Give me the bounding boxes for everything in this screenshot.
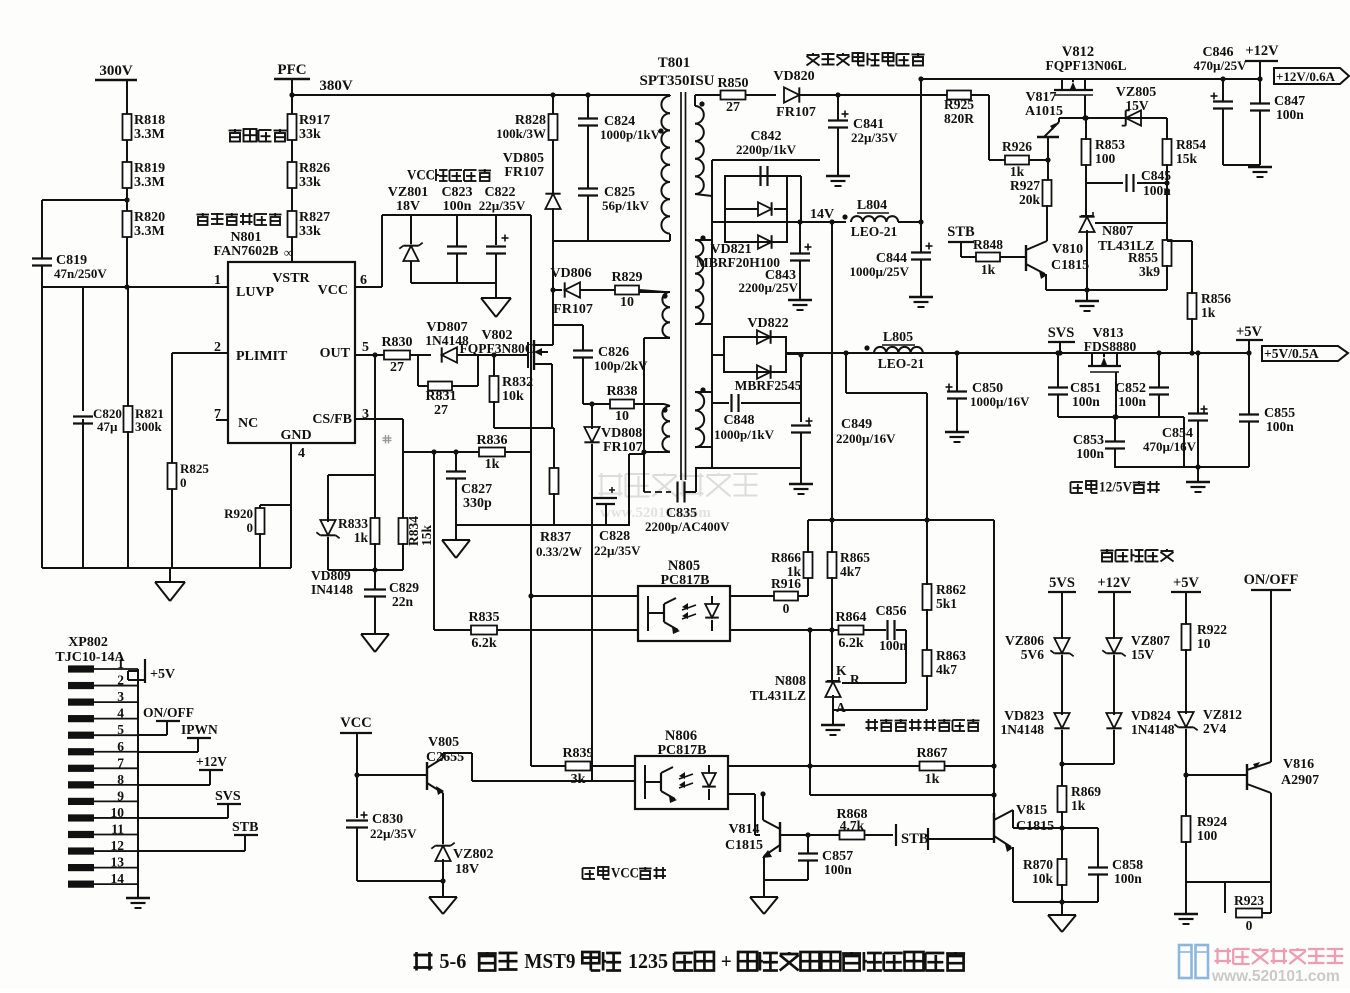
wire PFC down [289,79,294,115]
ic N801 box [228,262,355,443]
wire V812 source [1082,95,1087,121]
wire R924 top [1183,772,1188,817]
label 380V [319,78,353,94]
N801 pin text VSTR [272,271,310,286]
wire 14V up [920,79,922,222]
svg-text:C1815: C1815 [1016,819,1054,834]
svg-text:22µ/35V: 22µ/35V [851,130,898,145]
connector XP802 pins [68,665,138,887]
wire S2 top [695,239,712,241]
svg-text:N808: N808 [775,674,806,689]
wire C858 down [1097,875,1099,902]
connector XP802 numbers [111,656,125,886]
connector XP802 bus [137,669,139,884]
wire R839 line [531,765,565,767]
svg-text:N801: N801 [230,230,261,245]
wire C849 stub [798,352,803,422]
svg-text:N807: N807 [1102,224,1133,239]
diode VD822 b [757,365,771,379]
svg-text:R870: R870 [1023,857,1053,872]
wire vz812 to base [1186,774,1247,776]
resistor R850 [717,76,748,115]
wire C855 down [1248,422,1250,467]
label ovp [1101,549,1174,562]
svg-text:33k: 33k [299,224,321,239]
wire R862-R863 [926,609,928,651]
svg-text:LEO-21: LEO-21 [878,356,925,371]
svg-text:4k7: 4k7 [840,564,861,579]
svg-text:C856: C856 [875,604,906,619]
label vcc-supply [407,167,491,183]
N801 pin4 number [298,446,305,461]
wire C850 gnd [945,399,969,442]
svg-text:1k: 1k [485,457,500,472]
wire sec line160 [712,159,820,161]
VCC rail top [382,214,531,216]
resistor R927 [1010,178,1052,207]
wire N805 in bottom [434,629,638,631]
capacitor C854 [1143,350,1208,454]
svg-text:6: 6 [360,273,367,288]
wire R850-VD820 [746,94,776,96]
inductor L804 [842,198,898,239]
svg-text:15V: 15V [1125,98,1149,113]
tl431 N808 [825,677,840,697]
wire 12vb down [1113,592,1115,639]
wire VZ802 down [442,859,444,881]
opto N805 box [638,586,730,641]
svg-text:R829: R829 [611,270,642,285]
label standby-12-5V [1071,479,1160,495]
secondary S2 [695,235,706,324]
label VZ801 [388,185,428,214]
wire C823 top [456,215,458,246]
capacitor C846 [1211,76,1234,108]
svg-text:R855: R855 [1128,250,1158,265]
resistor R868 [787,807,868,840]
svg-text:0: 0 [247,520,254,535]
svg-text:PFC: PFC [277,62,306,78]
wire R826-R827 [291,188,293,211]
svg-text:VCC: VCC [611,865,639,881]
label qidong-circuit [229,129,287,142]
flag +12V/0.6A [1274,68,1349,84]
svg-text:R865: R865 [840,550,870,565]
svg-text:2200µ/25V: 2200µ/25V [739,280,799,295]
capacitor C845 [1086,168,1171,198]
svg-text:MST9: MST9 [524,949,575,973]
N801 pin5 wire [355,352,385,357]
capacitor C830 [346,812,417,842]
wire C841 gnd [826,128,850,186]
wire C843 gnd [788,261,812,310]
12V rail [918,76,1262,81]
wire left down [41,287,43,568]
terminal STB4 [896,824,929,847]
terminal +5Vb [1171,575,1201,592]
transistor V812 mosfet [1054,79,1093,95]
svg-text:18V: 18V [455,862,479,877]
opto N805 arrows [682,603,696,619]
svg-text:22µ/35V: 22µ/35V [479,198,526,213]
svg-text:+12V: +12V [1097,575,1131,591]
svg-text:15V: 15V [1131,647,1155,662]
svg-text:R925: R925 [944,97,974,112]
tl431 N807 [1079,212,1094,232]
wire W3 top [664,404,670,406]
svg-text:14V: 14V [810,207,834,222]
resistor R839 [562,746,593,787]
svg-text:1k: 1k [787,564,802,579]
N801 pin text GND [280,428,311,443]
wire V815 collector [1013,810,1062,828]
svg-text:12/5V: 12/5V [1099,479,1132,495]
wire primary-gnd to N806 [591,525,593,781]
zener VZ801 [399,243,422,261]
wire S1 top [695,95,721,106]
capacitor C849 [791,417,896,446]
wire R829-W2 [639,290,665,292]
resistor R826 [288,161,331,190]
svg-text:A: A [836,700,846,715]
resistor R832 [490,375,534,404]
wire P1 top [669,95,671,96]
capacitor C847 [1250,79,1305,122]
svg-text:15k: 15k [419,525,434,547]
wire C851 down [1057,395,1059,417]
wire 300V down [126,80,128,115]
label VZ805 15V [1125,98,1149,113]
wire fb to base [993,520,995,766]
svg-text:2: 2 [117,673,124,688]
wire vz807-vd824 [1113,655,1115,715]
capacitor C824 [578,114,661,142]
label A [836,700,846,715]
svg-text:12: 12 [111,838,125,853]
wire R837 bottom [553,493,555,525]
svg-text:3.3M: 3.3M [134,224,165,239]
wire W2 top [638,291,670,293]
resistor R834 [399,516,435,546]
label T801 [658,55,691,71]
svg-text:4: 4 [298,446,305,461]
svg-text:CS/FB: CS/FB [312,412,352,427]
svg-text:FR107: FR107 [603,440,643,455]
ground N808 [821,710,845,735]
svg-text:N806: N806 [665,728,697,744]
capacitor C856 [875,604,907,653]
label N808 [750,674,806,703]
svg-text:27: 27 [434,403,448,418]
svg-text:0.33/2W: 0.33/2W [536,544,582,559]
wire V817 emitter join [1059,117,1085,119]
wire C823 bottom [456,254,458,283]
resistor R917 [288,113,331,142]
N801 pin2 wire [172,352,228,354]
svg-text:R920: R920 [224,506,253,521]
VD809 bottom [328,537,403,570]
terminal ON/OFF xp [138,705,194,735]
wire R828-VD805 [552,140,554,193]
wire R848 right [1000,256,1026,258]
opto N806 diode [702,765,716,800]
label V802 [481,328,512,343]
svg-text:14: 14 [111,871,125,886]
svg-text:C829: C829 [389,580,419,595]
N801 pin5 number [362,340,369,355]
svg-text:1k: 1k [981,262,996,277]
resistor R863 [923,648,967,677]
N801 pin3 wire [355,419,403,452]
resistor R867 [916,746,947,787]
label VZ802 [453,847,493,877]
opto N806 box [635,756,728,809]
wire R925 right [971,95,989,160]
svg-text:6: 6 [117,739,124,754]
wire C849 gnd [789,433,813,494]
wire C829 gnd [361,597,389,652]
wire W2 bottom [644,337,670,339]
svg-text:VCC: VCC [340,715,371,731]
wire box out [786,353,801,355]
svg-text:22n: 22n [392,594,414,609]
resistor R925 [944,91,974,127]
wire N806 out bottom [728,794,760,835]
N801 pin3 number [362,407,369,422]
terminal STB xp [138,820,258,851]
wire C848 right [741,402,801,404]
capacitor C835 [645,482,730,535]
resistor R855 [1128,240,1172,279]
wire y795 [810,766,997,798]
secondary S1 [695,101,705,194]
label V805 [426,735,464,765]
svg-text:15k: 15k [1176,151,1198,166]
resistor R827 [288,210,331,239]
resistor R836 [476,433,507,472]
svg-text:R: R [850,672,860,687]
label VD807 [425,320,469,348]
wire R821 bottom [127,431,129,568]
label SVS [1048,325,1075,342]
diode VD822 a [757,330,771,344]
svg-text:4.7k: 4.7k [840,818,865,833]
wire VZ801 top [410,215,412,244]
mid ground rail [456,524,630,526]
svg-text:C827: C827 [461,482,492,497]
wire C822 bottom [495,254,497,298]
svg-text:+12V: +12V [196,754,227,769]
wire R838 right [634,403,664,405]
svg-text:100n: 100n [1076,446,1104,461]
label C822 [479,185,526,213]
wire R839 right [591,765,635,767]
resistor R862 [923,520,967,611]
svg-text:5: 5 [362,340,369,355]
label FDS8880 [1084,339,1137,354]
ground V814 [750,880,778,914]
svg-text:XP802: XP802 [68,635,108,650]
svg-text:OUT: OUT [320,346,351,361]
svg-text:100n: 100n [1266,419,1294,434]
svg-text:R927: R927 [1010,178,1040,193]
wire STB to base [928,838,994,840]
svg-text:2V4: 2V4 [1203,721,1226,736]
aux winding W2 [662,292,670,338]
opto N805 led [648,596,680,634]
svg-text:R922: R922 [1197,622,1227,637]
wire N807 R pin [1095,222,1167,224]
wire 14V line [712,207,846,225]
wire C826 bottom [582,358,584,404]
wire R867 right [945,763,997,768]
svg-text:VZ802: VZ802 [453,847,493,862]
resistor R856 [1167,241,1231,320]
transistor V810 [1026,241,1047,279]
wire R818-R819 [126,140,128,163]
wire W2W3 vertical [629,338,644,492]
wire VD805 bottom [552,208,554,241]
label SPT350ISU [639,73,714,89]
R836 line [403,449,531,454]
svg-text:100n: 100n [443,199,472,214]
svg-text:R924: R924 [1197,814,1227,829]
wire C835 line [644,491,671,493]
capacitor C826 [573,345,648,373]
wire R855 down [1166,265,1168,290]
wire r922-vz812 [1185,649,1187,714]
wire vd823 down [1059,730,1064,787]
wire K stub [831,630,833,680]
N801 pin6 wire [355,215,382,287]
capacitor C858 [1088,828,1143,886]
wire C852 down [1158,395,1160,417]
line c851c852 [1058,417,1184,467]
label VD821 [710,242,751,257]
wire R832 top [491,352,496,377]
terminal +12V [1245,43,1279,82]
svg-text:R838: R838 [606,384,637,399]
svg-text:27: 27 [726,100,740,115]
wire V815 emitter [1012,847,1014,902]
resistor R825 [168,461,210,490]
wire R833 bottom [372,543,377,573]
svg-text:1N4148: 1N4148 [1001,722,1045,737]
svg-text:R831: R831 [425,389,456,404]
wire R865 down [829,577,834,633]
wire R825 top [171,353,173,464]
wire SVS stub [1057,342,1062,356]
svg-text:4: 4 [117,706,124,721]
opto N805 diode [705,596,719,631]
N801 pin1 number [214,273,221,288]
wire C857 down [807,861,809,880]
svg-text:0: 0 [1246,918,1253,933]
wire VD808 top [589,401,594,429]
resistor R854 [1163,118,1207,166]
ground XP802 [126,884,150,908]
label C842 [736,129,797,157]
svg-text:3: 3 [117,689,124,704]
wire snubber bottom [553,240,670,242]
wire VD808-C828 [591,444,593,525]
svg-text:27: 27 [390,360,404,375]
wire VD807-gate [457,354,528,356]
wire V810 collector [1046,205,1048,241]
svg-text:VZ801: VZ801 [388,185,428,200]
svg-text:FR107: FR107 [504,165,544,180]
svg-text:R837: R837 [540,530,571,545]
svg-text:1000p/1kV: 1000p/1kV [600,127,661,142]
ground R924 [1174,882,1198,924]
svg-text:2200p/1kV: 2200p/1kV [736,142,797,157]
diode VD823 [1001,708,1070,737]
transistor V817 [1037,118,1059,158]
wire V814 base [780,834,787,836]
wire S2 bottom [695,323,712,325]
wire R833 top [374,355,376,519]
resistor R922 [1182,622,1228,651]
svg-text:VD806: VD806 [550,266,591,281]
diode VD805 [545,194,560,209]
resistor R864 [835,610,866,651]
zener VZ812 [1174,707,1242,736]
transformer core [681,92,686,480]
svg-text:47n/250V: 47n/250V [54,266,107,281]
transistor V814 [760,791,780,858]
svg-text:FQPF13N06L: FQPF13N06L [1046,58,1127,73]
terminal +12Vb [1097,575,1131,592]
wire V814 emitter [764,856,808,880]
terminal ON/OFF [1244,572,1299,590]
wire V802 drain [545,241,556,345]
wire R925 line [944,94,948,96]
R831 parallel right [418,355,478,386]
svg-text:3k: 3k [571,772,586,787]
ground 5v caps [1186,467,1210,492]
wire VCC down long [530,215,532,766]
svg-text:10: 10 [615,409,629,424]
svg-text:R825: R825 [180,461,209,476]
wire C820 top [82,287,84,411]
transistor V816 [1247,762,1271,793]
svg-text:V816: V816 [1283,757,1314,772]
resistor R848 [973,237,1003,277]
wire pin3 to R835 [433,452,435,630]
wire N805 out top [730,595,774,597]
N801 pin text OUT [320,346,351,361]
svg-text:300V: 300V [99,63,133,79]
zener VZ802 [431,843,454,861]
bottom line V815 [1013,901,1098,903]
bottom rail N801 [42,567,291,569]
svg-text:FR107: FR107 [776,105,816,120]
primary winding P1 [658,96,670,234]
transistor V813 mosfet [1088,353,1121,420]
svg-text:R926: R926 [1002,139,1032,154]
svg-text:V805: V805 [428,735,459,750]
label K [836,663,847,678]
capacitor C828 [592,487,641,558]
svg-text:820R: 820R [944,111,974,126]
wire R920 bottom [259,533,261,568]
wire C846 down [1223,109,1260,165]
wire C819 top [42,200,127,258]
wire C826 jog [553,325,583,350]
svg-text:C849: C849 [841,417,872,432]
label V814 [725,822,763,853]
wire VZ801 bottom [410,261,412,283]
